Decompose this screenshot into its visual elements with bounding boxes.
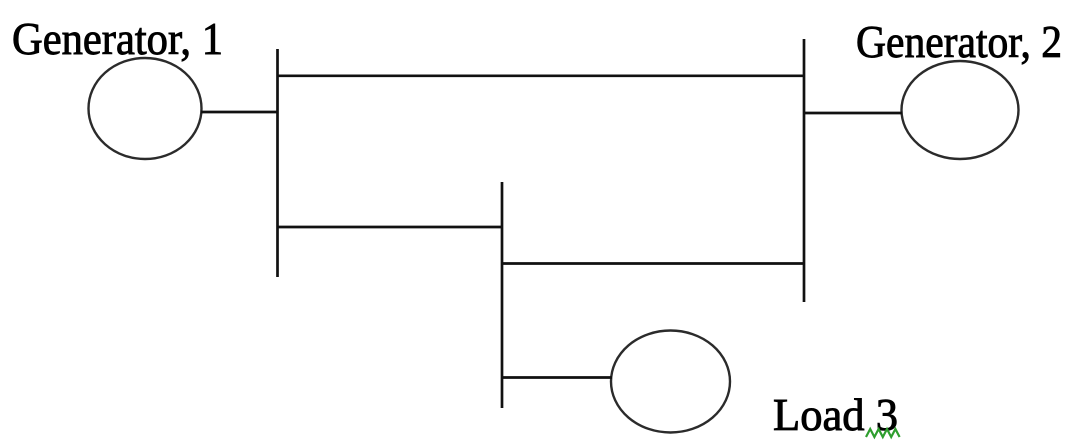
svg-text:Generator, 2: Generator, 2 [856,17,1062,67]
wire bus2 to gen2 [804,112,902,115]
generator G2 circle [902,61,1019,159]
wire bus1 to bus2 (line 1-2) [278,74,805,77]
bus 1 (vertical bar) [276,49,279,277]
wire gen1 to bus1 [201,111,278,114]
load L3 circle [611,331,730,433]
bus 3 (vertical bar) [501,182,504,408]
bus 2 (vertical bar) [803,39,806,302]
svg-text:Generator, 1: Generator, 1 [12,14,223,64]
wire bus3 to bus2 (line 2-3) [502,262,804,265]
wire bus3 to load [502,376,612,379]
generator G1 circle [89,58,202,159]
spellcheck squiggle under Load 3 [866,429,900,437]
wire bus1 to bus3 (line 1-3) [278,226,503,229]
